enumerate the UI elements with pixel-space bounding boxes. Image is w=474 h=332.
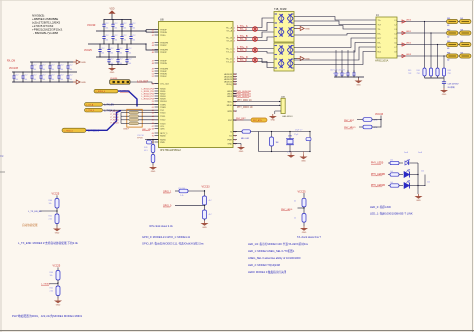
svg-text:C12: C12 <box>60 75 63 77</box>
svg-text:4: 4 <box>234 40 235 42</box>
svg-text:C12: C12 <box>128 48 131 50</box>
svg-text:104: 104 <box>33 69 36 71</box>
svg-text:53: 53 <box>152 83 154 85</box>
svg-text:T/L clock skew 0ns ?: T/L clock skew 0ns ? <box>297 235 322 239</box>
svg-text:10k: 10k <box>50 275 53 277</box>
svg-text:L7: L7 <box>395 47 397 49</box>
svg-text:LAN-MDIO: LAN-MDIO <box>282 115 293 118</box>
svg-text:48: 48 <box>152 63 154 65</box>
svg-text:R40: R40 <box>50 272 53 274</box>
svg-text:6: 6 <box>234 51 235 53</box>
svg-text:R41: R41 <box>49 216 52 218</box>
svg-text:R46: R46 <box>417 70 420 72</box>
svg-text:TRX2P: TRX2P <box>160 52 167 54</box>
svg-text:C12: C12 <box>33 75 36 77</box>
svg-text:NC2: NC2 <box>378 51 382 53</box>
svg-text:2.4k: 2.4k <box>50 291 54 293</box>
svg-text:TXD2: TXD2 <box>160 120 166 122</box>
svg-text:FB4: FB4 <box>447 52 450 54</box>
svg-text:104: 104 <box>114 40 117 42</box>
svg-text:VDD: VDD <box>109 8 114 11</box>
svg-text:GND: GND <box>442 94 447 96</box>
svg-text:8: 8 <box>234 61 235 63</box>
svg-text:C12: C12 <box>114 23 117 25</box>
svg-text:L_TX_ENb: MODE3 # 支持自动协商使能,下拉: L_TX_ENb: MODE3 # 支持自动协商使能,下拉2.4k <box>18 241 79 245</box>
svg-text:41: 41 <box>152 32 154 34</box>
svg-text:L3: L3 <box>395 29 397 31</box>
svg-text:C12: C12 <box>132 23 135 25</box>
svg-text:49.9: 49.9 <box>144 150 148 152</box>
svg-text:4n7 4n7 4n7 4n7: 4n7 4n7 4n7 4n7 <box>333 73 347 75</box>
svg-text:104: 104 <box>15 79 18 81</box>
svg-text:P_RXD0: P_RXD0 <box>111 111 120 113</box>
svg-text:TX-_B: TX-_B <box>226 40 232 42</box>
svg-text:LED2: LED2 <box>406 43 412 45</box>
svg-text:2.4k: 2.4k <box>49 219 53 221</box>
svg-text:104: 104 <box>123 27 126 29</box>
svg-text:TX+_A: TX+_A <box>226 26 233 29</box>
svg-text:MDC: MDC <box>227 101 232 103</box>
svg-text:C49 1nF/2kV: C49 1nF/2kV <box>448 83 460 85</box>
svg-text:C12: C12 <box>60 65 63 67</box>
svg-text:7: 7 <box>234 58 235 60</box>
svg-text:FB2: FB2 <box>447 29 450 31</box>
svg-text:104: 104 <box>51 79 54 81</box>
svg-text:R41: R41 <box>50 288 53 290</box>
svg-text:42: 42 <box>152 35 154 37</box>
svg-text:TRX1P: TRX1P <box>160 45 167 47</box>
svg-text:4k7: 4k7 <box>209 214 212 216</box>
svg-text:104: 104 <box>105 27 108 29</box>
svg-text:GND: GND <box>302 232 307 234</box>
svg-text:C12: C12 <box>123 23 126 25</box>
svg-text:4.7k: 4.7k <box>374 127 378 129</box>
svg-text:TRX0N: TRX0N <box>160 32 167 34</box>
svg-text:XO: XO <box>229 135 232 137</box>
svg-text:GND: GND <box>301 161 306 163</box>
svg-text:GND: GND <box>239 151 244 153</box>
svg-text:LED_1/2: 指示灯MODE3 100: 代表T/Lc: LED_1/2: 指示灯MODE3 100: 代表T/LclkXX延时0ns <box>248 242 309 246</box>
svg-text:68: 68 <box>152 128 154 130</box>
svg-text:GPIO_0: MODE3-21 GPIO_1:: GPIO_0: MODE3-21 GPIO_1: MODE4-11 <box>142 235 191 239</box>
svg-text:104: 104 <box>105 40 108 42</box>
svg-text:5: 5 <box>234 48 235 50</box>
svg-text:MD30: MD30 <box>160 135 166 137</box>
svg-text:P_RXD4: P_RXD4 <box>111 122 120 124</box>
svg-text:L_RXD0_0: L_RXD0_0 <box>96 91 105 93</box>
svg-text:104: 104 <box>69 79 72 81</box>
svg-text:L2: L2 <box>395 24 397 26</box>
svg-text:C9/C10: C9/C10 <box>137 135 145 137</box>
svg-text:LED_2: MODE0 TX[14]24M: LED_2: MODE0 TX[14]24M <box>248 263 280 267</box>
svg-text:C12: C12 <box>119 58 122 60</box>
svg-text:25M: 25M <box>288 135 292 137</box>
svg-text:104: 104 <box>110 53 113 55</box>
svg-text:2k4: 2k4 <box>421 170 424 172</box>
svg-text:- B8/2GBL7)cx4B8: - B8/2GBL7)cx4B8 <box>33 31 58 35</box>
svg-text:GND: GND <box>305 29 310 31</box>
svg-text:PHY_MDIO 1D: PHY_MDIO 1D <box>237 107 253 109</box>
svg-text:自动协商使能: 自动协商使能 <box>22 223 38 227</box>
svg-text:NC1: NC1 <box>378 47 382 49</box>
svg-text:C12: C12 <box>101 48 104 50</box>
svg-text:C12: C12 <box>110 48 113 50</box>
svg-text:TPV8: TPV8 <box>137 138 143 140</box>
svg-text:TX+: TX+ <box>378 20 381 22</box>
svg-text:2k: 2k <box>294 218 296 220</box>
svg-text:104: 104 <box>42 69 45 71</box>
svg-text:VCC25: VCC25 <box>84 49 92 52</box>
svg-text:C12: C12 <box>132 35 135 37</box>
svg-text:L8: L8 <box>395 51 397 53</box>
svg-text:VCC1V8: VCC1V8 <box>9 68 19 70</box>
svg-text:L5: L5 <box>395 38 397 40</box>
svg-text:1M: 1M <box>276 142 279 144</box>
svg-text:PHY_MDC 1C: PHY_MDC 1C <box>237 100 252 102</box>
svg-text:MDIO: MDIO <box>227 105 233 107</box>
svg-text:2k4: 2k4 <box>427 181 430 183</box>
svg-text:C12: C12 <box>119 48 122 50</box>
svg-text:T1B_XFMR: T1B_XFMR <box>274 8 287 11</box>
svg-text:104: 104 <box>42 79 45 81</box>
svg-text:104: 104 <box>51 69 54 71</box>
svg-text:TX-_D: TX-_D <box>226 61 232 63</box>
svg-text:R48: R48 <box>448 70 451 72</box>
svg-text:2.4k: 2.4k <box>180 195 184 197</box>
svg-text:R45: R45 <box>408 70 411 72</box>
svg-text:C12: C12 <box>105 35 108 37</box>
svg-text:PWD: PWD <box>160 142 165 144</box>
svg-text:L6: L6 <box>395 42 397 44</box>
svg-text:C12: C12 <box>51 65 54 67</box>
svg-text:R/S clock skew 2.3s: R/S clock skew 2.3s <box>150 224 174 228</box>
svg-text:C40 C41 C42 C43: C40 C41 C42 C43 <box>330 69 345 71</box>
svg-text:C12: C12 <box>128 58 131 60</box>
svg-text:2: 2 <box>234 30 235 32</box>
svg-text:1: 1 <box>234 27 235 29</box>
svg-text:63: 63 <box>152 112 154 114</box>
svg-text:4k7: 4k7 <box>209 200 212 202</box>
svg-text:FB3: FB3 <box>447 41 450 43</box>
svg-text:LED_1: MODE2 ANEG_SEL 0 /TX配置: LED_1: MODE2 ANEG_SEL 0 /TX配置1 <box>248 249 295 253</box>
svg-text:59: 59 <box>152 101 154 103</box>
svg-text:PHY地址配置为0001、J22,J4J为MODE1 MOD: PHY地址配置为0001、J22,J4J为MODE1 MODE1 M0D1 <box>12 314 83 318</box>
svg-text:C12: C12 <box>42 65 45 67</box>
svg-text:TXD1: TXD1 <box>160 116 166 118</box>
svg-text:VDDQ: VDDQ <box>226 84 232 86</box>
svg-text:VCC25: VCC25 <box>298 190 307 193</box>
svg-text:TX-: TX- <box>378 29 381 31</box>
svg-text:R49: R49 <box>144 147 147 149</box>
svg-text:104: 104 <box>128 63 131 65</box>
svg-text:L_TX_EN: L_TX_EN <box>104 105 114 107</box>
svg-text:104: 104 <box>69 69 72 71</box>
svg-text:RST_BTN: RST_BTN <box>253 120 262 122</box>
svg-text:IP178GHP05G2: IP178GHP05G2 <box>160 148 181 152</box>
svg-text:73: 73 <box>234 135 236 137</box>
svg-text:GND: GND <box>356 85 361 87</box>
svg-text:U8: U8 <box>160 18 164 22</box>
svg-text:LED1: LED1 <box>406 31 412 33</box>
svg-text:4k: 4k <box>294 201 296 203</box>
svg-text:64: 64 <box>234 84 236 86</box>
svg-text:VCC25: VCC25 <box>53 265 61 268</box>
svg-text:TX-_C: TX-_C <box>226 51 232 53</box>
svg-text:C12: C12 <box>51 75 54 77</box>
svg-text:104: 104 <box>123 40 126 42</box>
svg-text:64: 64 <box>152 116 154 118</box>
svg-text:GND?: GND? <box>123 129 130 131</box>
svg-text:C12: C12 <box>114 35 117 37</box>
svg-text:C12: C12 <box>33 65 36 67</box>
svg-text:L_TX0_0: L_TX0_0 <box>86 110 94 112</box>
svg-text:MD 0.6R: MD 0.6R <box>241 138 249 140</box>
svg-text:GND: GND <box>55 233 60 235</box>
svg-text:1k0: 1k0 <box>390 182 393 184</box>
svg-text:TXD0: TXD0 <box>160 113 166 115</box>
svg-text:LED0: LED0 <box>406 20 412 22</box>
svg-text:INTR: INTR <box>227 111 232 113</box>
svg-text:3: 3 <box>234 37 235 39</box>
svg-text:C12: C12 <box>69 65 72 67</box>
svg-text:L_TX_A: L_TX_A <box>86 103 94 106</box>
svg-text:P_RXD2: P_RXD2 <box>111 117 120 119</box>
svg-text:10k: 10k <box>49 203 52 205</box>
svg-text:27pF C?: 27pF C? <box>295 130 302 132</box>
svg-text:VCC33: VCC33 <box>375 113 384 116</box>
svg-text:61: 61 <box>152 107 154 109</box>
svg-text:TX-_A: TX-_A <box>226 29 232 32</box>
svg-text:GND: GND <box>228 143 233 145</box>
svg-text:VCC25: VCC25 <box>52 193 60 196</box>
svg-text:VCC33: VCC33 <box>87 23 96 27</box>
svg-text:TXER: TXER <box>160 107 166 109</box>
svg-text:52: 52 <box>152 76 154 78</box>
svg-text:GND: GND <box>81 62 86 64</box>
svg-text:44: 44 <box>152 45 154 47</box>
svg-text:LED0: MODE1 0 触发指示灯关闭: LED0: MODE1 0 触发指示灯关闭 <box>248 270 287 274</box>
svg-text:R40: R40 <box>49 200 52 202</box>
svg-text:TX+_C: TX+_C <box>226 48 233 50</box>
svg-text:L4: L4 <box>395 33 397 35</box>
svg-text:104: 104 <box>60 69 63 71</box>
svg-text:C12: C12 <box>24 75 27 77</box>
svg-text:LED3: LED3 <box>406 54 412 56</box>
svg-text:104: 104 <box>60 79 63 81</box>
svg-text:70: 70 <box>234 111 236 113</box>
svg-text:C12: C12 <box>110 58 113 60</box>
svg-text:65: 65 <box>152 120 154 122</box>
svg-text:PWR: PWR <box>227 139 232 141</box>
svg-text:P_RXD3: P_RXD3 <box>111 120 120 122</box>
svg-text:TRX4C: TRX4C <box>160 76 167 78</box>
svg-text:TX+_D: TX+_D <box>226 58 233 60</box>
svg-text:4.7k: 4.7k <box>374 120 378 122</box>
svg-text:LED_0: 指示LINK: LED_0: 指示LINK <box>370 205 391 209</box>
svg-text:C12: C12 <box>42 75 45 77</box>
svg-text:1k0: 1k0 <box>390 159 393 161</box>
svg-text:VCC33: VCC33 <box>202 186 211 189</box>
svg-text:CRS: CRS <box>160 128 165 130</box>
svg-text:L_TXD0_0: L_TXD0_0 <box>64 131 73 133</box>
svg-text:TX+_B: TX+_B <box>226 37 233 39</box>
svg-text:RX+: RX+ <box>378 33 382 35</box>
svg-text:70: 70 <box>152 135 154 137</box>
svg-text:GND: GND <box>271 120 276 122</box>
svg-text:LED_1: 指示1000/100BASE-T LINK: LED_1: 指示1000/100BASE-T LINK <box>370 211 413 215</box>
svg-text:GND: GND <box>202 227 207 229</box>
svg-text:74: 74 <box>234 139 236 141</box>
svg-text:104: 104 <box>119 53 122 55</box>
svg-text:C12: C12 <box>123 35 126 37</box>
svg-text:TRX0: TRX0 <box>160 35 166 37</box>
svg-text:C_TX: C_TX <box>287 152 292 154</box>
svg-text:RXCLK: RXCLK <box>160 101 167 103</box>
svg-text:104: 104 <box>101 53 104 55</box>
svg-text:1k0: 1k0 <box>390 171 393 173</box>
svg-text:GND: GND <box>56 305 61 307</box>
svg-text:GPIO_B?: 指示灯(MODE3 111, 代表XXcl: GPIO_B?: 指示灯(MODE3 111, 代表XXclkXX)的2.5ns <box>142 242 204 246</box>
svg-text:GND: GND <box>151 171 156 173</box>
svg-text:GND: GND <box>81 82 86 84</box>
svg-text:FB1: FB1 <box>447 18 450 20</box>
svg-text:TRX3N: TRX3N <box>160 63 167 65</box>
svg-text:RX-: RX- <box>378 42 381 44</box>
svg-text:HR911105A: HR911105A <box>375 60 389 63</box>
svg-text:P_RXD1: P_RXD1 <box>111 114 120 116</box>
svg-text:GND: GND <box>416 200 421 202</box>
svg-text:LED2: LED2 <box>227 96 233 98</box>
svg-text:GND: GND <box>110 72 115 74</box>
svg-text:ANEG_SEL 0 advertise ability o: ANEG_SEL 0 advertise ability of 10/100/1… <box>248 256 301 260</box>
svg-text:L1: L1 <box>395 20 397 22</box>
svg-text:C12: C12 <box>105 23 108 25</box>
svg-text:104: 104 <box>33 79 36 81</box>
svg-text:46: 46 <box>152 52 154 54</box>
svg-text:104: 104 <box>24 79 27 81</box>
svg-text:104: 104 <box>128 53 131 55</box>
svg-text:C12: C12 <box>69 75 72 77</box>
svg-text:C12: C12 <box>15 75 18 77</box>
svg-text:104: 104 <box>132 27 135 29</box>
svg-text:104: 104 <box>132 40 135 42</box>
svg-text:104: 104 <box>114 27 117 29</box>
svg-text:RX_CM: RX_CM <box>7 61 15 63</box>
svg-text:J2 HDR4: J2 HDR4 <box>110 78 117 80</box>
svg-text:UTL_CLK: UTL_CLK <box>160 83 169 85</box>
